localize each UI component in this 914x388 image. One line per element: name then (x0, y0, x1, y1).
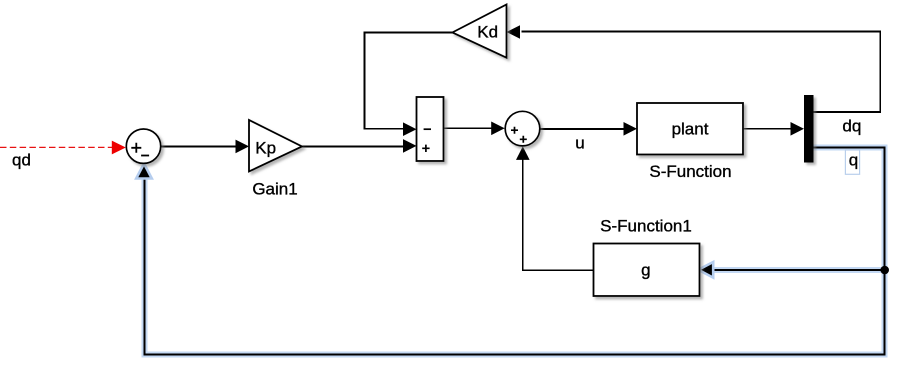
svg-text:plant: plant (672, 120, 709, 139)
svg-text:S-Function: S-Function (649, 162, 731, 181)
svg-text:Gain1: Gain1 (252, 180, 297, 199)
svg-text:qd: qd (12, 151, 31, 170)
svg-text:Kd: Kd (477, 23, 498, 42)
svg-text:Kp: Kp (255, 139, 276, 158)
svg-text:u: u (575, 134, 584, 153)
svg-text:dq: dq (842, 117, 861, 136)
svg-text:g: g (641, 261, 650, 280)
svg-text:S-Function1: S-Function1 (600, 216, 692, 235)
svg-text:q: q (849, 150, 858, 169)
